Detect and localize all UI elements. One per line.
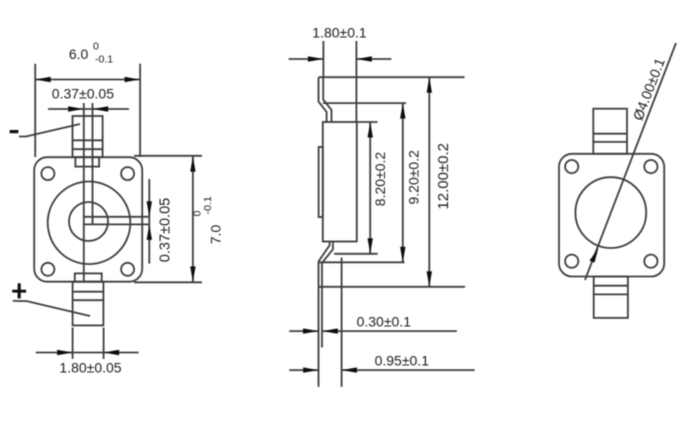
svg-text:12.00±0.2: 12.00±0.2	[435, 143, 452, 210]
svg-text:0.95±0.1: 0.95±0.1	[375, 353, 430, 369]
svg-text:0: 0	[93, 40, 99, 52]
svg-text:6.0: 6.0	[69, 46, 89, 62]
svg-text:8.20±0.2: 8.20±0.2	[372, 152, 388, 207]
svg-text:-0.1: -0.1	[95, 53, 113, 65]
svg-text:1.80±0.05: 1.80±0.05	[59, 360, 121, 376]
svg-text:-0.1: -0.1	[202, 196, 214, 214]
svg-text:0.37±0.05: 0.37±0.05	[52, 86, 114, 102]
svg-text:0.30±0.1: 0.30±0.1	[357, 314, 412, 330]
svg-text:1.80±0.1: 1.80±0.1	[312, 25, 367, 41]
svg-text:9.20±0.2: 9.20±0.2	[406, 150, 422, 205]
svg-text:7.0: 7.0	[208, 225, 224, 245]
svg-text:0.37±0.05: 0.37±0.05	[158, 198, 174, 262]
